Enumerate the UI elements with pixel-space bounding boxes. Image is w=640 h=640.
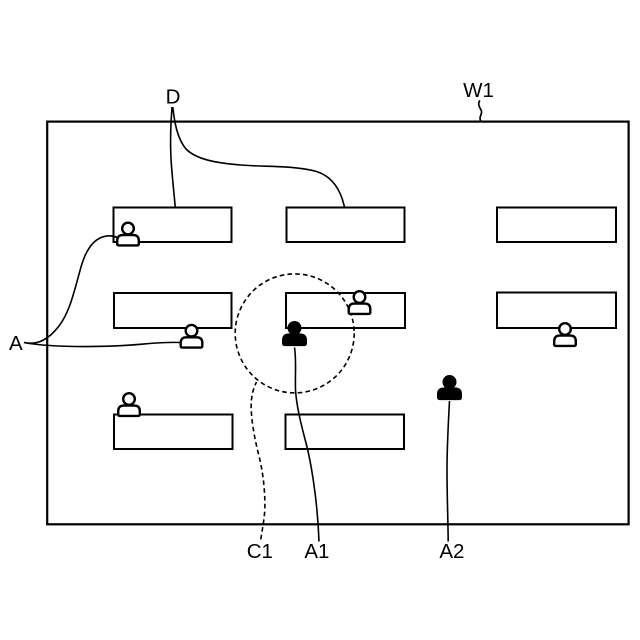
leader line W1 [479,100,482,121]
dashed circle C1 [235,274,354,393]
desk row1 left [114,208,232,243]
filled person A1 [283,322,306,345]
person P2 left of row2 middle desk [181,325,203,348]
svg-text:A2: A2 [439,540,464,563]
svg-text:W1: W1 [463,79,494,102]
leader line C1 dashed [251,382,265,543]
person P3 at row2 middle desk [349,291,371,314]
svg-text:A1: A1 [304,540,329,563]
leader line A2 [447,401,450,542]
svg-text:C1: C1 [247,540,273,563]
leader line A upper branch [24,236,118,343]
svg-text:A: A [9,332,23,355]
desk row1 middle [287,208,405,243]
leader line D left branch [171,107,176,207]
leader line D right branch [173,107,345,207]
room boundary W1 [47,122,628,525]
desk row2 middle [286,293,405,328]
leader line A lower branch [24,342,180,346]
desk row3 middle [286,415,405,450]
desk row2 right [497,293,616,329]
person P1 at row1 left desk [117,223,139,246]
person P4 at row2 right desk [554,323,576,346]
svg-text:D: D [166,86,181,109]
leader line A1 [295,348,320,542]
filled person A2 [438,376,461,399]
desk row2 left [114,293,232,328]
desk row3 left [114,415,233,450]
person P5 at row3 left desk [118,393,140,416]
desk row1 right [497,208,616,243]
